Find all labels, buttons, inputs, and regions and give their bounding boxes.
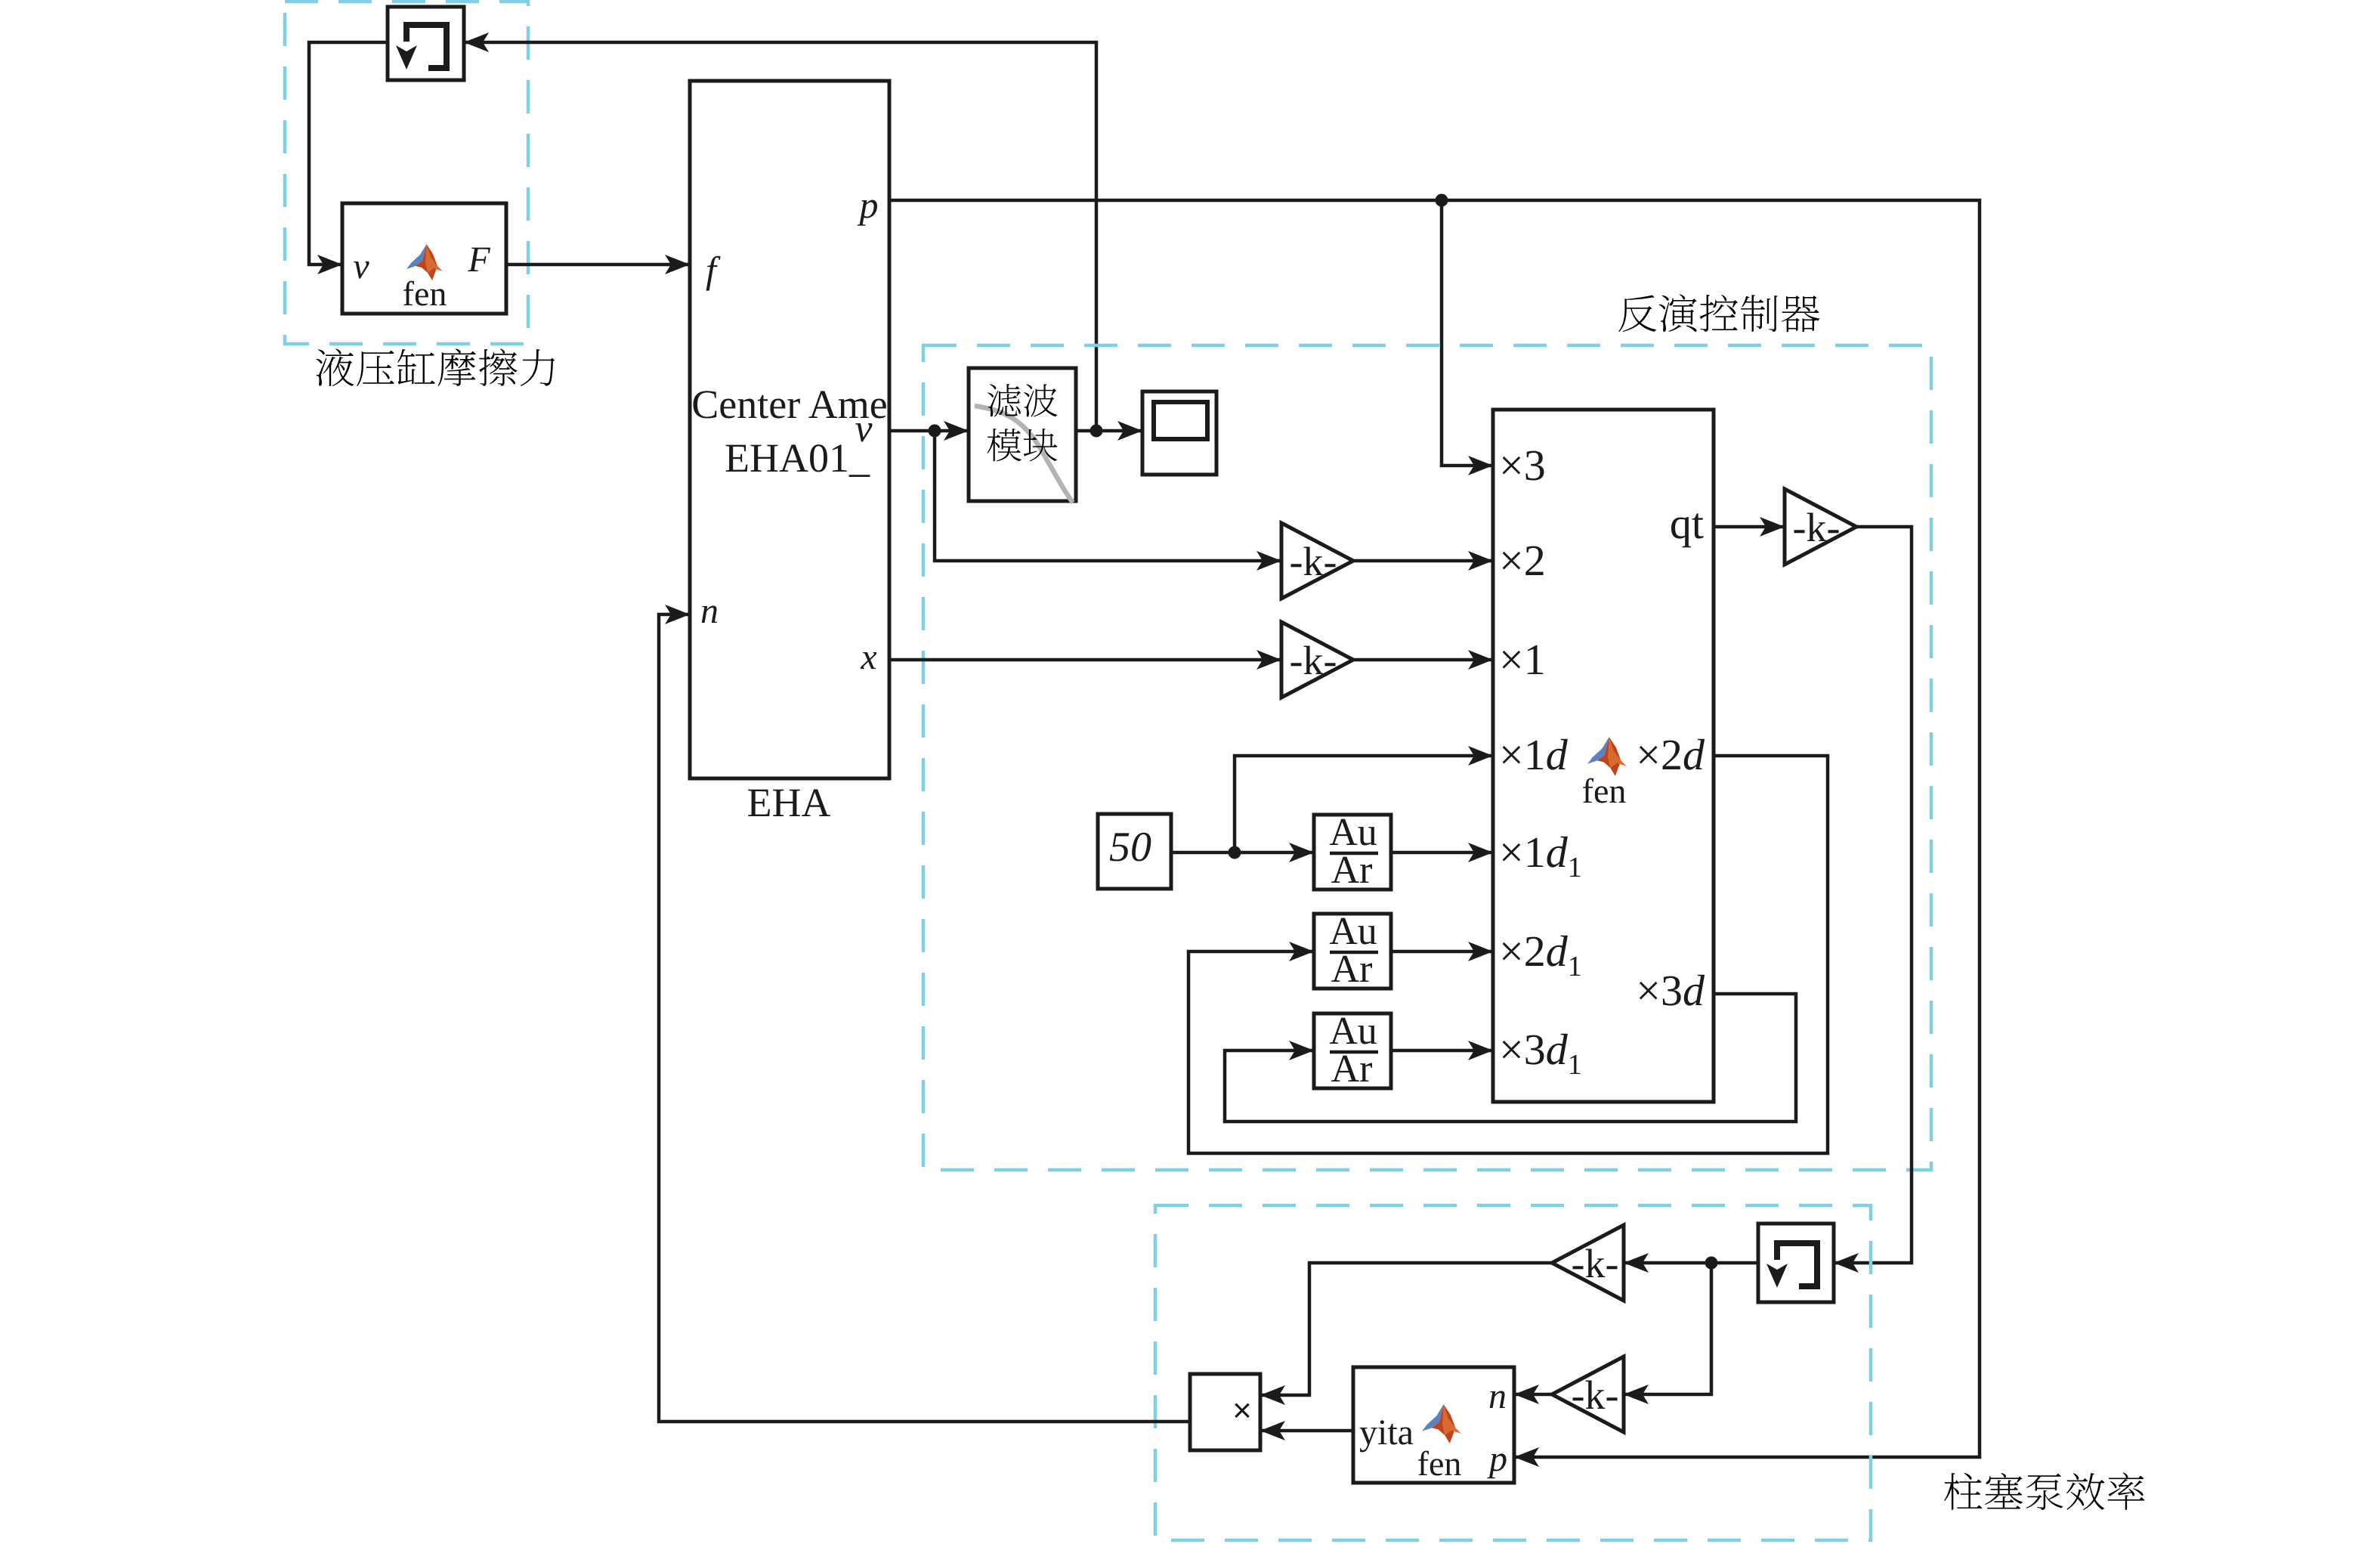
gain block AuAr1 (Au/Ar) — [1314, 811, 1391, 892]
MATLAB Fcn block fen2 (backstepping controller) — [1493, 410, 1714, 1102]
svg-text:Ar: Ar — [1331, 1047, 1373, 1091]
svg-text:n: n — [700, 591, 719, 631]
svg-text:-k-: -k- — [1290, 539, 1337, 584]
product block X (mirrored) — [1190, 1374, 1260, 1450]
svg-text:-k-: -k- — [1572, 1372, 1619, 1418]
wire: K1 out to controller x2 — [1353, 551, 1493, 571]
filter block 滤波模块 — [969, 368, 1076, 503]
memory block M1 — [388, 7, 464, 80]
svg-text:×2d: ×2d — [1636, 730, 1705, 779]
gain block K3 (-k-) — [1785, 489, 1856, 565]
gain block AuAr3 (Au/Ar) — [1314, 1010, 1391, 1091]
svg-text:50: 50 — [1109, 824, 1151, 871]
svg-text:fen: fen — [1417, 1444, 1462, 1483]
svg-text:Au: Au — [1329, 811, 1377, 854]
wire: K2 out to controller x1 — [1353, 650, 1493, 670]
wire: filtered v to memory M1 — [464, 32, 1096, 431]
svg-text:Ar: Ar — [1331, 849, 1373, 892]
wire: 50 to AuAr1 with junction — [1171, 843, 1314, 862]
wire: EHA p output across top to pump box — [889, 194, 1980, 1468]
wire: K5 out to yita n input — [1514, 1385, 1552, 1404]
svg-text:qt: qt — [1670, 499, 1704, 548]
memory block M2 — [1758, 1224, 1834, 1302]
wire: memory M1 out to fen1 v input — [309, 42, 388, 274]
MATLAB Fcn block yita fen (pump efficiency) — [1353, 1367, 1514, 1483]
svg-text:F: F — [467, 240, 490, 280]
svg-text:p: p — [1487, 1439, 1507, 1479]
wire: product out to EHA n input — [659, 605, 1190, 1422]
svg-text:EHA01_: EHA01_ — [725, 435, 870, 481]
wire: v branch down to gain k1 — [935, 431, 1281, 571]
wire: yita out to product in2 — [1260, 1421, 1353, 1440]
wire: AuAr2 to controller x2d1 — [1391, 942, 1493, 961]
wire: EHA v output to filter — [889, 421, 969, 441]
svg-text:fen: fen — [1582, 772, 1627, 810]
wire: AuAr3 to controller x3d1 — [1391, 1041, 1493, 1060]
svg-text:Au: Au — [1329, 1010, 1377, 1053]
MATLAB Fcn block fen1 (friction) — [342, 203, 506, 314]
svg-text:-k-: -k- — [1290, 638, 1337, 683]
svg-text:p: p — [858, 184, 879, 226]
wire: controller x3d loop back to AuAr3 — [1225, 994, 1796, 1122]
gain block K4 (-k- mirrored) — [1552, 1225, 1624, 1301]
svg-text:×1d: ×1d — [1499, 730, 1569, 779]
svg-text:×3: ×3 — [1499, 441, 1546, 490]
dashed box: piston pump efficiency group — [1155, 1205, 1871, 1540]
gain block K2 (-k-) — [1281, 622, 1353, 698]
dashed box: hydraulic cylinder friction group — [285, 2, 528, 344]
wire: M2 out to gain K4 with junction — [1624, 1253, 1758, 1273]
svg-text:×: × — [1232, 1392, 1252, 1429]
svg-text:-k-: -k- — [1572, 1241, 1619, 1286]
svg-text:yita: yita — [1359, 1412, 1414, 1453]
svg-text:Ar: Ar — [1331, 948, 1373, 991]
svg-text:×1: ×1 — [1499, 635, 1546, 684]
wire: AuAr1 to controller x1d1 — [1391, 843, 1493, 862]
svg-text:EHA: EHA — [747, 780, 831, 825]
label 反演控制器 — [1618, 294, 1819, 332]
svg-text:n: n — [1488, 1376, 1507, 1416]
svg-text:v: v — [353, 246, 369, 286]
wire: K4 out to product in1 — [1260, 1263, 1552, 1405]
wire: filter out to scope with junction — [1076, 421, 1142, 441]
svg-text:×3d: ×3d — [1636, 966, 1705, 1015]
gain block K5 (-k- mirrored) — [1552, 1357, 1624, 1432]
subsystem block EHA — [690, 81, 889, 778]
constant block 50 — [1098, 814, 1171, 889]
gain block AuAr2 (Au/Ar) — [1314, 910, 1391, 991]
svg-text:x: x — [860, 637, 876, 677]
wire: branch up to controller x1d — [1235, 746, 1493, 852]
scope block — [1142, 391, 1216, 475]
label 液压缸摩擦力 — [316, 348, 555, 386]
svg-text:-k-: -k- — [1793, 505, 1841, 550]
wire: controller qt out to gain K3 — [1714, 517, 1785, 537]
svg-text:v: v — [855, 407, 873, 450]
svg-text:Au: Au — [1329, 910, 1377, 953]
wire: EHA x output to gain K2 — [889, 650, 1281, 670]
wire: K3 out down to memory M2 — [1834, 527, 1912, 1273]
wire: p branch down to controller x3 input — [1442, 200, 1493, 475]
dashed box: backstepping controller — [923, 345, 1931, 1170]
gain block K1 (-k-) — [1281, 523, 1353, 599]
svg-text:×2: ×2 — [1499, 536, 1546, 585]
wire: controller x2d loop back to AuAr2 — [1188, 756, 1828, 1153]
wire: fen1 F out to EHA f input — [506, 255, 690, 274]
label 柱塞泵效率 — [1944, 1472, 2144, 1510]
wire: branch down to gain K5 — [1624, 1263, 1711, 1404]
svg-text:fen: fen — [403, 274, 447, 313]
